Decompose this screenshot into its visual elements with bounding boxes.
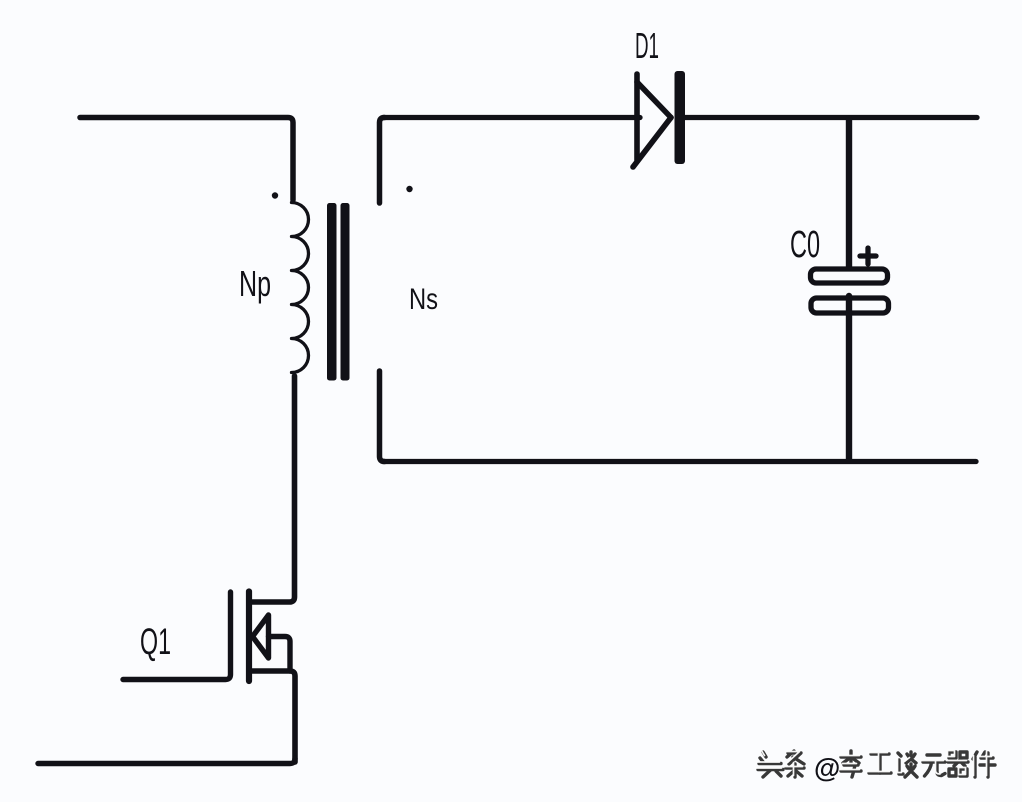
wire secondary bottom rail: [383, 459, 976, 464]
svg-text:C0: C0: [790, 224, 820, 266]
watermark 头条@李工谈元器件: [757, 751, 996, 784]
transformer secondary Ns bottom stub: [380, 371, 385, 462]
MOSFET Q1 body diode arrow: [253, 615, 269, 658]
char 李: [841, 751, 861, 777]
char 件: [973, 752, 995, 777]
transformer secondary Ns top stub: [380, 118, 385, 204]
transformer core bar right: [341, 203, 350, 381]
diode D1 cathode bar: [675, 71, 686, 164]
primary phasing dot: [272, 192, 278, 198]
wire transformer primary to MOSFET drain: [252, 376, 295, 602]
MOSFET Q1 source lead: [252, 671, 296, 762]
wire top-left primary input: [80, 118, 293, 201]
char 条: [786, 751, 804, 777]
emboss highlight: [757, 751, 992, 776]
wire MOSFET source to bottom-left rail: [38, 759, 295, 764]
MOSFET Q1 channel bar: [246, 592, 252, 682]
diode D1 anode triangle: [633, 74, 671, 167]
wire top wire down to capacitor: [846, 119, 852, 267]
char 工: [869, 754, 891, 773]
svg-text:Ns: Ns: [409, 283, 438, 316]
transformer core bar left: [327, 203, 337, 381]
char 谈: [898, 752, 917, 777]
wire diode cathode to right end: [684, 115, 977, 120]
char 头: [758, 752, 783, 777]
svg-text:Np: Np: [239, 263, 271, 304]
capacitor C0 polarity plus: [860, 248, 876, 264]
wire capacitor to bottom rail: [846, 296, 852, 459]
MOSFET Q1 gate lead wire: [123, 592, 231, 680]
secondary phasing dot: [406, 186, 412, 192]
MOSFET Q1 body lead: [269, 637, 291, 672]
capacitor C0 top plate: [811, 269, 888, 283]
char 器: [948, 752, 968, 776]
svg-text:@: @: [814, 753, 840, 783]
svg-text:Q1: Q1: [140, 621, 171, 662]
wire secondary top to diode anode: [383, 115, 640, 120]
char 元: [923, 755, 945, 776]
transformer primary winding Np coil: [292, 203, 309, 373]
svg-text:D1: D1: [635, 25, 659, 66]
capacitor C0 bottom plate: [811, 298, 889, 313]
